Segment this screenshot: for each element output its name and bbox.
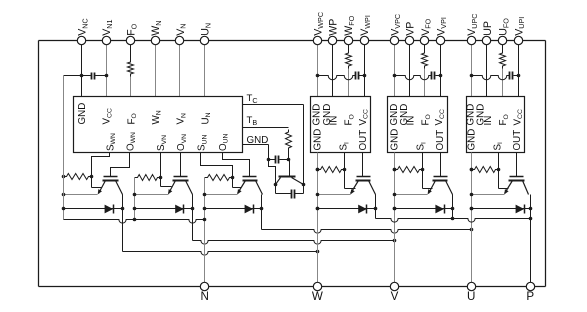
node diode row right (V low): [191, 207, 195, 211]
wire U_FO terminal to resistor: [502, 45, 504, 51]
wire U low collector down: [261, 195, 263, 230]
svg-text:N: N: [201, 290, 209, 303]
node sense resistor right (W): [343, 168, 347, 172]
resistor R_SVN sense: [135, 175, 161, 181]
node sense resistor left (V): [393, 168, 397, 172]
IGBT Q_UN (U low-side) body bar: [243, 180, 258, 182]
wire node B to sense transistor: [289, 160, 291, 177]
terminal V: [390, 282, 398, 290]
module package outline (bottom edge): [39, 286, 546, 288]
wire S_WN pin dogleg: [92, 153, 110, 188]
svg-text:GND: GND: [247, 135, 269, 146]
wire resistor to LVIC Fo pin: [130, 77, 132, 97]
capacitor C_UP supply wire with hops: [472, 76, 510, 80]
diode D_UN (anode left, cathode right): [245, 205, 254, 214]
wire sense tap to emitter (W high): [345, 188, 356, 190]
rail U phase (low collector to U terminal): [262, 230, 472, 234]
terminal VUPI: [514, 36, 522, 44]
node diode row left (V high): [393, 207, 397, 211]
IGBT Q_VN (V low-side) body bar: [173, 180, 189, 182]
wire thermistor to node B: [288, 151, 290, 160]
diode D_VP (anode left, cathode right): [435, 205, 444, 214]
node V_UPI cap junction: [517, 74, 521, 78]
IGBT Q_UP (U high-side) body bar: [509, 180, 525, 182]
wire V_UPI terminal down: [518, 45, 520, 76]
terminal UFO: [498, 36, 506, 44]
svg-text:OUT: OUT: [512, 130, 523, 151]
wire OUT pin to gate (U): [516, 153, 518, 177]
IGBT Q_WN (W low-side) gate plate: [104, 176, 118, 178]
node V high collector on P rail: [451, 217, 455, 221]
node diode row left (W low): [62, 207, 66, 211]
svg-text:OUT: OUT: [358, 130, 369, 151]
IGBT Q_WP (W high-side) gate plate: [357, 176, 371, 178]
IGBT Q_VP (V high-side) collector lead: [446, 181, 453, 195]
wire UP input terminal to HVIC IN: [486, 45, 488, 97]
node diode row right (U low): [260, 207, 264, 211]
wire W high collector down: [375, 195, 377, 219]
wire GND node down-right: [269, 160, 276, 185]
wire HVIC GND / phase feed (V): [394, 153, 396, 287]
resistor R_FO (V high-side): [422, 51, 428, 69]
wire WP input terminal to HVIC IN: [332, 45, 334, 97]
sense transistor Q_T right leg: [292, 178, 304, 185]
svg-text:GND: GND: [466, 129, 477, 151]
wire TC from LVIC: [243, 104, 304, 106]
terminal VP: [405, 36, 413, 44]
wire V_VPI terminal down: [440, 45, 442, 76]
resistor R_SW sense: [318, 167, 345, 173]
node Q_T left junction: [274, 183, 278, 187]
node V_N1 junction: [105, 74, 109, 78]
svg-text:VP: VP: [405, 22, 417, 36]
wire OUT pin to gate (W): [362, 153, 364, 177]
wire emitter U low to N feed: [205, 194, 238, 196]
capacitor C_VP plates: [431, 72, 433, 80]
node S_UN resistor junction: [231, 176, 235, 180]
IGBT Q_UN (U low-side) gate plate: [243, 176, 257, 178]
wire O_WN gate dogleg: [111, 153, 130, 177]
node diode row left (W high): [316, 207, 320, 211]
resistor R_SV sense: [395, 167, 423, 173]
node resistor left on V_NC bus line: [62, 175, 66, 179]
wire W_N terminal to LVIC: [155, 45, 157, 97]
wire V high collector down: [452, 195, 454, 219]
resistor R_SU sense: [472, 167, 499, 173]
IGBT Q_WN (W low-side) body bar: [103, 180, 119, 182]
IGBT Q_UP (U high-side) collector lead: [523, 181, 529, 195]
capacitor C_T2 plates: [291, 190, 293, 199]
diode D_UP (anode left, cathode right): [516, 205, 525, 214]
svg-text:IN: IN: [329, 116, 340, 126]
wire GND down: [268, 145, 270, 160]
diode D_WP (anode left, cathode right): [358, 205, 367, 214]
node V tap diode row: [133, 207, 137, 211]
wire resistor to HVIC Fo pin: [424, 69, 426, 97]
node phase feed resistor: [393, 168, 397, 172]
wire sense tap to emitter (U high): [499, 188, 509, 190]
svg-text:GND: GND: [390, 129, 401, 151]
IGBT Q_WP (W high-side) collector lead: [369, 181, 376, 195]
freewheel diode row D_WN: [64, 208, 123, 210]
wire HVIC GND / phase feed (U): [471, 153, 473, 287]
node W rail to W feed: [316, 250, 320, 254]
terminal VUPC: [467, 36, 475, 44]
wire U high collector down to P terminal: [530, 195, 532, 287]
terminal VWPC: [313, 36, 321, 44]
IGBT Q_UP (U high-side) gate plate: [510, 176, 524, 178]
node phase feed diode row: [393, 207, 397, 211]
wire V low collector down: [192, 195, 194, 241]
node phase feed resistor: [470, 168, 474, 172]
rail P (high-side collectors to P terminal): [376, 219, 531, 223]
terminal WFO: [344, 36, 352, 44]
capacitor C_T1 leads: [269, 159, 276, 161]
terminal U: [467, 282, 475, 290]
IGBT Q_UP (U high-side) emitter with arrow: [505, 181, 513, 194]
capacitor C1 plates: [91, 73, 93, 80]
IGBT Q_VN (V low-side) collector lead: [186, 181, 193, 195]
diode D_VN (anode left, cathode right): [175, 205, 184, 214]
node S_VN resistor junction: [159, 176, 163, 180]
node emitter wire on bus line: [62, 193, 66, 197]
wire cap node to LVIC GND pin: [81, 76, 83, 97]
svg-text:U: U: [467, 290, 475, 303]
capacitor C_T1 plates: [275, 156, 277, 164]
IGBT Q_VP (V high-side) body bar: [433, 180, 448, 182]
wire S_UN pin dogleg: [201, 153, 233, 188]
node phase feed resistor: [316, 168, 320, 172]
terminal UN: [200, 36, 208, 44]
wire GND from LVIC: [243, 144, 269, 146]
resistor R_FO (N-side): [128, 60, 134, 77]
svg-text:V: V: [391, 290, 399, 303]
resistor R_SWN sense: [64, 174, 92, 180]
rail W phase (low collector to W terminal): [123, 252, 318, 256]
HVIC U-phase driver block: [467, 97, 525, 153]
svg-text:GND: GND: [77, 103, 88, 125]
wire VP input terminal to HVIC IN: [409, 45, 411, 97]
svg-text:W: W: [312, 290, 323, 303]
terminal WP: [328, 36, 336, 44]
node U rail to U feed: [470, 228, 474, 232]
freewheel diode row D_UN: [205, 208, 262, 210]
module package outline (left edge): [38, 41, 40, 287]
wire resistor to HVIC Fo pin: [348, 69, 350, 97]
wire W low collector down: [122, 195, 124, 252]
capacitor C_T2 leads: [276, 193, 292, 195]
wire right leg to capacitor C_T2: [303, 185, 305, 194]
node resistor right on sense line: [90, 175, 94, 179]
wire V_FO terminal to resistor: [424, 45, 426, 51]
terminal VN1: [102, 36, 110, 44]
svg-text:P: P: [526, 290, 534, 303]
resistor R_FO (W high-side): [346, 51, 352, 69]
freewheel diode row D_WP: [318, 208, 376, 210]
wire U_N terminal to LVIC: [204, 45, 206, 97]
node diode row right (W low): [121, 207, 125, 211]
svg-text:UP: UP: [482, 21, 494, 36]
node V tap on bus: [133, 218, 137, 222]
IGBT Q_UN (U low-side) emitter with arrow: [238, 181, 246, 194]
wire W_FO terminal to resistor: [348, 45, 350, 51]
capacitor C_UP plates: [509, 72, 511, 80]
wire S_I pin down (V): [422, 153, 424, 189]
terminal P: [526, 282, 534, 290]
capacitor C_VP supply wire with hops: [395, 76, 432, 80]
terminal UP: [482, 36, 490, 44]
IGBT Q_UN (U low-side) collector lead: [256, 181, 263, 195]
node diode row left (U high): [470, 207, 474, 211]
IGBT Q_VP (V high-side) gate plate: [434, 176, 448, 178]
node sense resistor right (U): [497, 168, 501, 172]
node phase feed diode row: [470, 207, 474, 211]
terminal VVPI: [436, 36, 444, 44]
terminal VN: [175, 36, 183, 44]
resistor R_FO (U high-side): [500, 51, 506, 69]
module package outline (top edge): [39, 40, 546, 42]
node emitter wire on phase feed (V): [393, 193, 397, 197]
svg-text:IN: IN: [406, 116, 417, 126]
HVIC V-phase driver block: [388, 97, 448, 153]
wire O_UN gate dogleg: [223, 153, 250, 177]
node emitter wire on phase feed (W): [316, 193, 320, 197]
wire HVIC GND / phase feed (W): [317, 153, 319, 287]
node V tap emitter: [133, 193, 137, 197]
capacitor C1 V_N1-V_NC wire: [64, 75, 92, 77]
terminal VFO: [420, 36, 428, 44]
IGBT Q_VN (V low-side) emitter with arrow: [169, 181, 176, 194]
IGBT Q_WP (W high-side) body bar: [356, 180, 371, 182]
sense transistor Q_T left leg: [276, 178, 281, 185]
node B junction: [287, 158, 291, 162]
wire V low tap vertical: [134, 178, 136, 220]
IGBT Q_WP (W high-side) emitter with arrow: [351, 181, 359, 194]
wire emitter W low to bus: [64, 194, 98, 196]
wire TC down: [303, 105, 305, 185]
node emitter wire on phase feed (U): [470, 193, 474, 197]
wire V_NC terminal to cap node: [81, 45, 83, 76]
wire V_WPC terminal down: [317, 45, 319, 76]
terminal VWPI: [360, 36, 368, 44]
capacitor C_WP plates: [355, 72, 357, 80]
wire S_I pin down (W): [344, 153, 346, 189]
svg-text:OUT: OUT: [435, 130, 446, 151]
wire S_I pin down (U): [498, 153, 500, 189]
node N feed emitter: [203, 193, 207, 197]
wire N feed vertical (U tap to N terminal): [204, 178, 206, 287]
wire V_NC bus vertical: [63, 76, 65, 220]
node diode row right (U high): [529, 207, 533, 211]
svg-text:IN: IN: [483, 116, 494, 126]
IGBT Q_VP (V high-side) emitter with arrow: [429, 181, 436, 194]
wire emitter U high to phase feed: [472, 194, 505, 196]
wire O_VN gate down: [180, 153, 182, 177]
freewheel diode row D_VP: [395, 208, 453, 210]
node V_VPI cap junction: [439, 74, 443, 78]
node sense resistor left (W): [316, 168, 320, 172]
HVIC W-phase driver block: [311, 97, 371, 153]
capacitor C_WP supply wire with hops: [318, 76, 356, 80]
node V_NC junction: [80, 74, 84, 78]
wire left leg to capacitor C_T2: [275, 185, 277, 194]
terminal N: [200, 282, 208, 290]
wire to LVIC VCC pin: [106, 76, 108, 97]
wire sense tap to emitter (W low): [92, 187, 102, 189]
wire sense tap to emitter (U low): [233, 187, 242, 189]
node V_UPC cap junction: [470, 74, 474, 78]
wire V_UPC terminal down: [471, 45, 473, 76]
node N feed bus end: [203, 218, 207, 222]
wire sense tap to emitter (V high): [423, 188, 433, 190]
wire V_WPI terminal down: [364, 45, 366, 76]
node diode row right (W high): [374, 207, 378, 211]
IGBT Q_WN (W low-side) emitter with arrow: [99, 181, 106, 194]
svg-text:WP: WP: [328, 19, 340, 36]
wire V_N terminal to LVIC: [179, 45, 181, 97]
node G junction: [267, 158, 271, 162]
svg-text:GND: GND: [313, 129, 324, 151]
terminal VNC: [77, 36, 85, 44]
node sense resistor right (V): [421, 168, 425, 172]
node V_WPI cap junction: [363, 74, 367, 78]
bus V_NC to N rail: [64, 220, 205, 224]
node V_WPC cap junction: [316, 74, 320, 78]
wire emitter V high to phase feed: [395, 194, 428, 196]
node diode row right (V high): [451, 207, 455, 211]
wire F_O terminal to resistor: [130, 45, 132, 60]
node sense resistor left (U): [470, 168, 474, 172]
thermistor R_T: [286, 130, 292, 151]
wire S_VN pin down: [160, 153, 162, 187]
resistor R_SUN sense: [205, 175, 233, 181]
terminal FO: [126, 36, 134, 44]
node V_VPC cap junction: [393, 74, 397, 78]
node phase feed diode row: [316, 207, 320, 211]
wire OUT pin to gate (V): [440, 153, 442, 177]
wire sense tap to emitter (V low): [161, 186, 172, 188]
wire V_VPC terminal down: [394, 45, 396, 76]
wire V_N1 terminal down: [106, 45, 108, 76]
module package outline (right edge): [545, 41, 547, 287]
wire emitter V low to tap line: [135, 194, 169, 196]
sense transistor Q_T body bar: [279, 176, 296, 178]
node N feed diode row: [203, 207, 207, 211]
freewheel diode row D_VN: [135, 208, 193, 210]
node V rail to V feed: [393, 239, 397, 243]
terminal W: [313, 282, 321, 290]
freewheel diode row D_UP: [472, 208, 531, 210]
rail V phase (low collector to V terminal): [193, 241, 395, 245]
IGBT Q_WN (W low-side) collector lead: [116, 181, 123, 195]
wire TB from LVIC: [243, 127, 289, 129]
terminal WN: [151, 36, 159, 44]
terminal VVPC: [390, 36, 398, 44]
IGBT Q_VN (V low-side) gate plate: [174, 176, 188, 178]
node P rail end: [529, 217, 533, 221]
wire resistor to HVIC Fo pin: [502, 69, 504, 97]
LVIC N-side driver block: [74, 97, 243, 153]
wire emitter W high to phase feed: [318, 194, 351, 196]
node Q_T right junction: [302, 183, 306, 187]
diode D_WN (anode left, cathode right): [105, 205, 114, 214]
